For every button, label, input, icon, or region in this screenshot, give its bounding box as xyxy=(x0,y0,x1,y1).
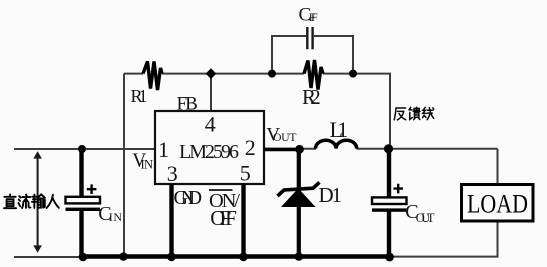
svg-text:5: 5 xyxy=(240,160,251,185)
svg-text:4: 4 xyxy=(205,112,216,137)
svg-text:IN: IN xyxy=(109,210,123,224)
svg-text:OUT: OUT xyxy=(273,130,297,144)
svg-text:R1: R1 xyxy=(131,86,148,106)
svg-text:OFF: OFF xyxy=(210,206,237,230)
svg-text:D1: D1 xyxy=(319,183,343,207)
svg-text:LM2596: LM2596 xyxy=(179,141,239,163)
svg-text:1: 1 xyxy=(158,137,169,162)
svg-text:GND: GND xyxy=(174,187,203,209)
svg-text:2: 2 xyxy=(245,135,256,160)
svg-text:L1: L1 xyxy=(330,117,349,142)
svg-text:FB: FB xyxy=(177,94,198,115)
svg-text:IN: IN xyxy=(141,157,154,171)
svg-text:R2: R2 xyxy=(302,85,321,109)
svg-text:FF: FF xyxy=(309,10,318,24)
svg-text:LOAD: LOAD xyxy=(467,190,528,219)
svg-text:3: 3 xyxy=(167,161,178,186)
svg-text:OUT: OUT xyxy=(416,211,435,225)
